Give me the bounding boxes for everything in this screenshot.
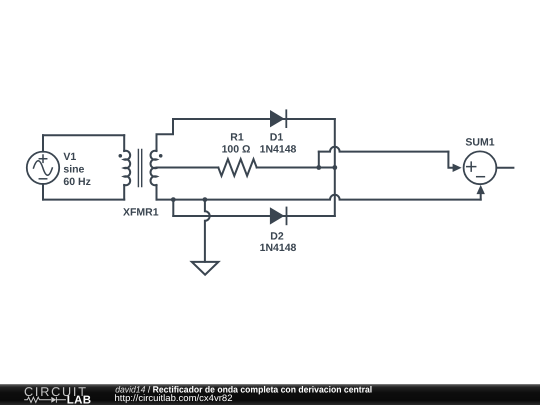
svg-text:sine: sine (63, 164, 84, 176)
arrowhead into SUM1 plus (453, 164, 462, 172)
wire into SUM1 minus input (480, 194, 482, 200)
footer logo schematic glyph (24, 397, 66, 403)
wire to SUM1 plus with hop (319, 147, 449, 152)
wire R1 to right vertical (257, 167, 335, 169)
svg-text:60 Hz: 60 Hz (63, 176, 90, 188)
summer SUM1 (464, 151, 497, 184)
wire D2 rail (173, 215, 334, 217)
wire V1 top to loop corner (42, 135, 44, 151)
svg-text:100 Ω: 100 Ω (222, 143, 251, 155)
wire down to SUM1 plus input (448, 152, 452, 168)
wire corner down to primary top (123, 135, 125, 151)
node junction R1 to vertical rail (332, 165, 337, 170)
svg-text:1N4148: 1N4148 (260, 242, 297, 254)
svg-text:XFMR1: XFMR1 (123, 207, 159, 219)
wire secondary top terminal (157, 119, 174, 151)
diode D1 (270, 109, 287, 128)
svg-text:1N4148: 1N4148 (260, 143, 297, 155)
svg-text:R1: R1 (230, 132, 244, 144)
wire down to D2 branch (172, 200, 174, 216)
svg-text:http://circuitlab.com/cx4vr82: http://circuitlab.com/cx4vr82 (115, 393, 233, 403)
footer bar (0, 384, 540, 405)
node junction ground branch (203, 197, 208, 202)
svg-text:D1: D1 (270, 132, 284, 144)
arrowhead into SUM1 minus (477, 185, 485, 194)
wire SUM1 output (496, 167, 513, 169)
wire junction up from R1 node (318, 152, 320, 168)
wire top of V1 loop (43, 134, 124, 136)
wire center tap to R1 (157, 167, 219, 169)
svg-text:D2: D2 (270, 230, 284, 242)
ground (192, 262, 219, 275)
svg-text:LAB: LAB (67, 395, 92, 405)
transformer XFMR1 (119, 150, 163, 187)
wire ground branch with hop (205, 200, 210, 262)
node junction R1 output tap (316, 165, 321, 170)
wire top rail to D1 and corner (173, 118, 335, 120)
svg-text:V1: V1 (63, 151, 76, 163)
wire bottom of V1 loop (43, 199, 124, 201)
wire bottom rail to SUM1 minus with hop (157, 195, 481, 200)
resistor R1 (218, 159, 256, 176)
voltage source V1 (27, 152, 59, 184)
wire up to V1 bottom (42, 184, 44, 200)
wire primary bottom down (123, 185, 125, 200)
wire secondary bottom terminal (156, 185, 158, 200)
wire right vertical D1 to D2 (334, 119, 336, 216)
node junction secondary bottom / D2 branch (171, 197, 176, 202)
svg-text:SUM1: SUM1 (465, 137, 494, 149)
diode D2 (270, 207, 288, 226)
